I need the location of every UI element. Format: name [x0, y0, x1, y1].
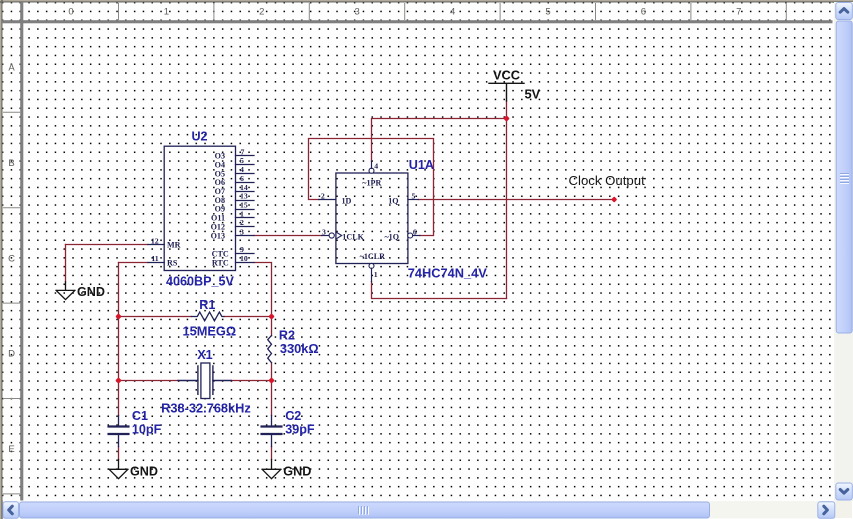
svg-text:15: 15	[240, 201, 248, 210]
page boundary seam	[769, 23, 775, 500]
svg-text:R1: R1	[199, 298, 215, 312]
svg-text:O4: O4	[215, 160, 225, 169]
wire X1 left	[119, 380, 179, 382]
corner square	[836, 501, 852, 518]
wire O13 to 1CLK	[254, 235, 322, 237]
svg-text:1: 1	[164, 7, 169, 18]
U2 right pin stubs O3-O13,CTC,RTC	[236, 156, 255, 263]
svg-text:9: 9	[240, 245, 244, 254]
svg-text:A: A	[8, 63, 15, 74]
junction node B (R1 left)	[115, 313, 122, 320]
svg-text:~1Q: ~1Q	[384, 233, 399, 242]
ground GND2 (under C1)	[109, 460, 128, 479]
svg-text:5V: 5V	[525, 86, 541, 101]
wire ~1CLR to VCC rail	[372, 282, 507, 299]
VCC power symbol	[489, 83, 524, 101]
ground GND3 (under C2)	[262, 460, 281, 479]
wire left rail node B to X1 row	[118, 317, 120, 381]
svg-text:RS: RS	[167, 258, 178, 267]
svg-text:7: 7	[736, 7, 741, 18]
svg-text:4060BP_5V: 4060BP_5V	[166, 275, 235, 289]
wire left rail to C1	[118, 381, 120, 416]
junction X1 left	[115, 377, 122, 384]
U1A pin ~1PR bubble	[369, 168, 374, 173]
svg-text:C1: C1	[132, 409, 148, 423]
svg-text:1: 1	[240, 209, 244, 218]
resistor R1	[191, 312, 224, 321]
svg-text:O3: O3	[215, 152, 225, 161]
capacitor C2	[262, 416, 282, 447]
U1A pin numbers	[321, 162, 417, 280]
svg-text:2: 2	[321, 192, 325, 201]
U1A pin 1Q stub	[408, 199, 418, 201]
horizontal scrollbar	[3, 501, 852, 519]
svg-text:~1PR: ~1PR	[362, 178, 381, 187]
wire R1 right	[224, 316, 272, 318]
wire right rail to C2	[271, 381, 273, 416]
junction VCC node	[503, 115, 510, 122]
svg-text:10: 10	[240, 254, 248, 263]
svg-text:CTC: CTC	[212, 249, 229, 258]
svg-text:E: E	[8, 444, 14, 455]
svg-text:O11: O11	[211, 214, 225, 223]
svg-text:O8: O8	[215, 196, 225, 205]
svg-text:MR: MR	[167, 241, 181, 250]
hsb right button	[818, 502, 835, 519]
vsb thumb	[836, 21, 852, 333]
svg-text:GND: GND	[130, 464, 158, 478]
svg-text:3: 3	[322, 228, 326, 237]
op U1A box 74HC74 flip-flop	[336, 173, 408, 264]
crystal X1	[178, 366, 231, 394]
svg-text:O5: O5	[215, 169, 225, 178]
svg-text:Clock Output: Clock Output	[569, 173, 646, 188]
U2 left pin stubs MR,RS	[148, 245, 164, 263]
left ruler ticks	[3, 112, 20, 494]
ruler divider bars	[2, 20, 833, 23]
svg-text:U2: U2	[191, 130, 207, 144]
svg-text:C: C	[8, 253, 15, 264]
wire right rail R2 bottom lead	[271, 363, 273, 381]
svg-text:6: 6	[240, 174, 244, 183]
svg-text:1D: 1D	[342, 197, 352, 206]
svg-text:D: D	[8, 349, 15, 360]
wire RS horizontal	[119, 262, 148, 264]
svg-text:0: 0	[68, 7, 73, 18]
junction node A (R1 right)	[268, 313, 275, 320]
svg-text:O7: O7	[215, 187, 225, 196]
wire VCC rail vertical	[506, 101, 508, 299]
svg-text:4: 4	[374, 162, 378, 171]
svg-text:O9: O9	[215, 205, 225, 214]
svg-text:O12: O12	[211, 222, 225, 231]
svg-text:5: 5	[412, 192, 416, 201]
svg-text:2: 2	[259, 7, 264, 18]
svg-text:39pF: 39pF	[285, 422, 315, 436]
terminal Clock Output end	[611, 196, 617, 202]
hsb left button	[3, 502, 19, 519]
U1A pin ~1CLR bubble and stub	[369, 263, 374, 268]
svg-text:GND: GND	[77, 285, 105, 299]
U1A clock triangle	[336, 232, 342, 239]
vsb up button	[836, 3, 853, 20]
U1A pin ~1Q bubble and stub	[408, 233, 413, 238]
svg-text:12: 12	[151, 236, 159, 245]
wire RS drop to node B	[118, 263, 120, 317]
svg-text:7: 7	[241, 147, 245, 156]
wire 1Q to Clock Output	[418, 199, 614, 201]
U2 pin names	[167, 152, 229, 268]
svg-text:6: 6	[641, 7, 646, 18]
top ruler labels 0-7	[68, 7, 741, 18]
ground GND1 (left)	[56, 282, 75, 300]
top ruler ticks	[119, 3, 787, 20]
svg-text:3: 3	[355, 7, 360, 18]
svg-text:4: 4	[240, 165, 244, 174]
svg-text:O13: O13	[211, 232, 225, 241]
wire MR GND drop	[65, 245, 67, 282]
wire R1 left	[119, 316, 192, 318]
svg-text:15MEGΩ: 15MEGΩ	[182, 323, 236, 338]
wire C2 bottom to GND	[271, 447, 273, 460]
U1A pin 1CLK stub and circle	[322, 235, 330, 237]
wire C1 bottom to GND	[118, 447, 120, 460]
svg-text:B: B	[8, 158, 14, 169]
svg-text:RTC: RTC	[212, 258, 229, 267]
svg-text:U1A: U1A	[409, 158, 434, 172]
capacitor C1	[109, 416, 129, 447]
svg-text:~1CLR: ~1CLR	[360, 252, 385, 261]
svg-text:11: 11	[151, 254, 158, 263]
vertical scrollbar	[834, 2, 853, 501]
svg-text:5: 5	[240, 156, 244, 165]
svg-text:3: 3	[240, 227, 244, 236]
junction X1 right	[268, 377, 275, 384]
svg-text:14: 14	[240, 183, 248, 192]
hsb thumb	[20, 502, 710, 518]
vsb down button	[836, 483, 853, 500]
U2 pin numbers	[151, 147, 248, 263]
svg-text:1: 1	[374, 270, 378, 279]
svg-text:X1: X1	[197, 348, 212, 362]
wire feedback ~1Q to 1D loop	[309, 139, 434, 236]
svg-text:6: 6	[413, 228, 417, 237]
svg-text:GND: GND	[283, 464, 311, 478]
svg-text:1Q: 1Q	[388, 197, 398, 206]
wire VCC to ~1PR	[372, 119, 507, 162]
op U2 box 4060 counter	[164, 146, 235, 270]
svg-text:VCC: VCC	[493, 68, 520, 83]
svg-text:O6: O6	[215, 178, 225, 187]
U1A pin 4 stub	[371, 161, 373, 168]
U1A pin 1D stub	[319, 199, 336, 201]
wire RTC to right rail	[254, 263, 272, 317]
svg-text:2: 2	[240, 218, 244, 227]
svg-text:5: 5	[545, 7, 550, 18]
U1A pin names	[342, 178, 400, 261]
wire X1 right	[231, 380, 271, 382]
outer window border	[0, 0, 853, 1]
svg-text:330kΩ: 330kΩ	[280, 341, 319, 356]
svg-text:74HC74N_4V: 74HC74N_4V	[408, 266, 487, 281]
svg-text:1CLK: 1CLK	[342, 233, 364, 242]
svg-text:R38-32.768kHz: R38-32.768kHz	[161, 401, 251, 416]
svg-text:13: 13	[240, 192, 248, 201]
svg-text:4: 4	[450, 7, 455, 18]
left ruler labels A-E	[8, 63, 15, 456]
resistor R2	[268, 336, 272, 363]
svg-text:10pF: 10pF	[132, 422, 162, 436]
wire MR to GND horizontal	[66, 244, 148, 246]
svg-text:C2: C2	[285, 409, 301, 423]
wire right rail R2 top lead	[271, 317, 273, 336]
